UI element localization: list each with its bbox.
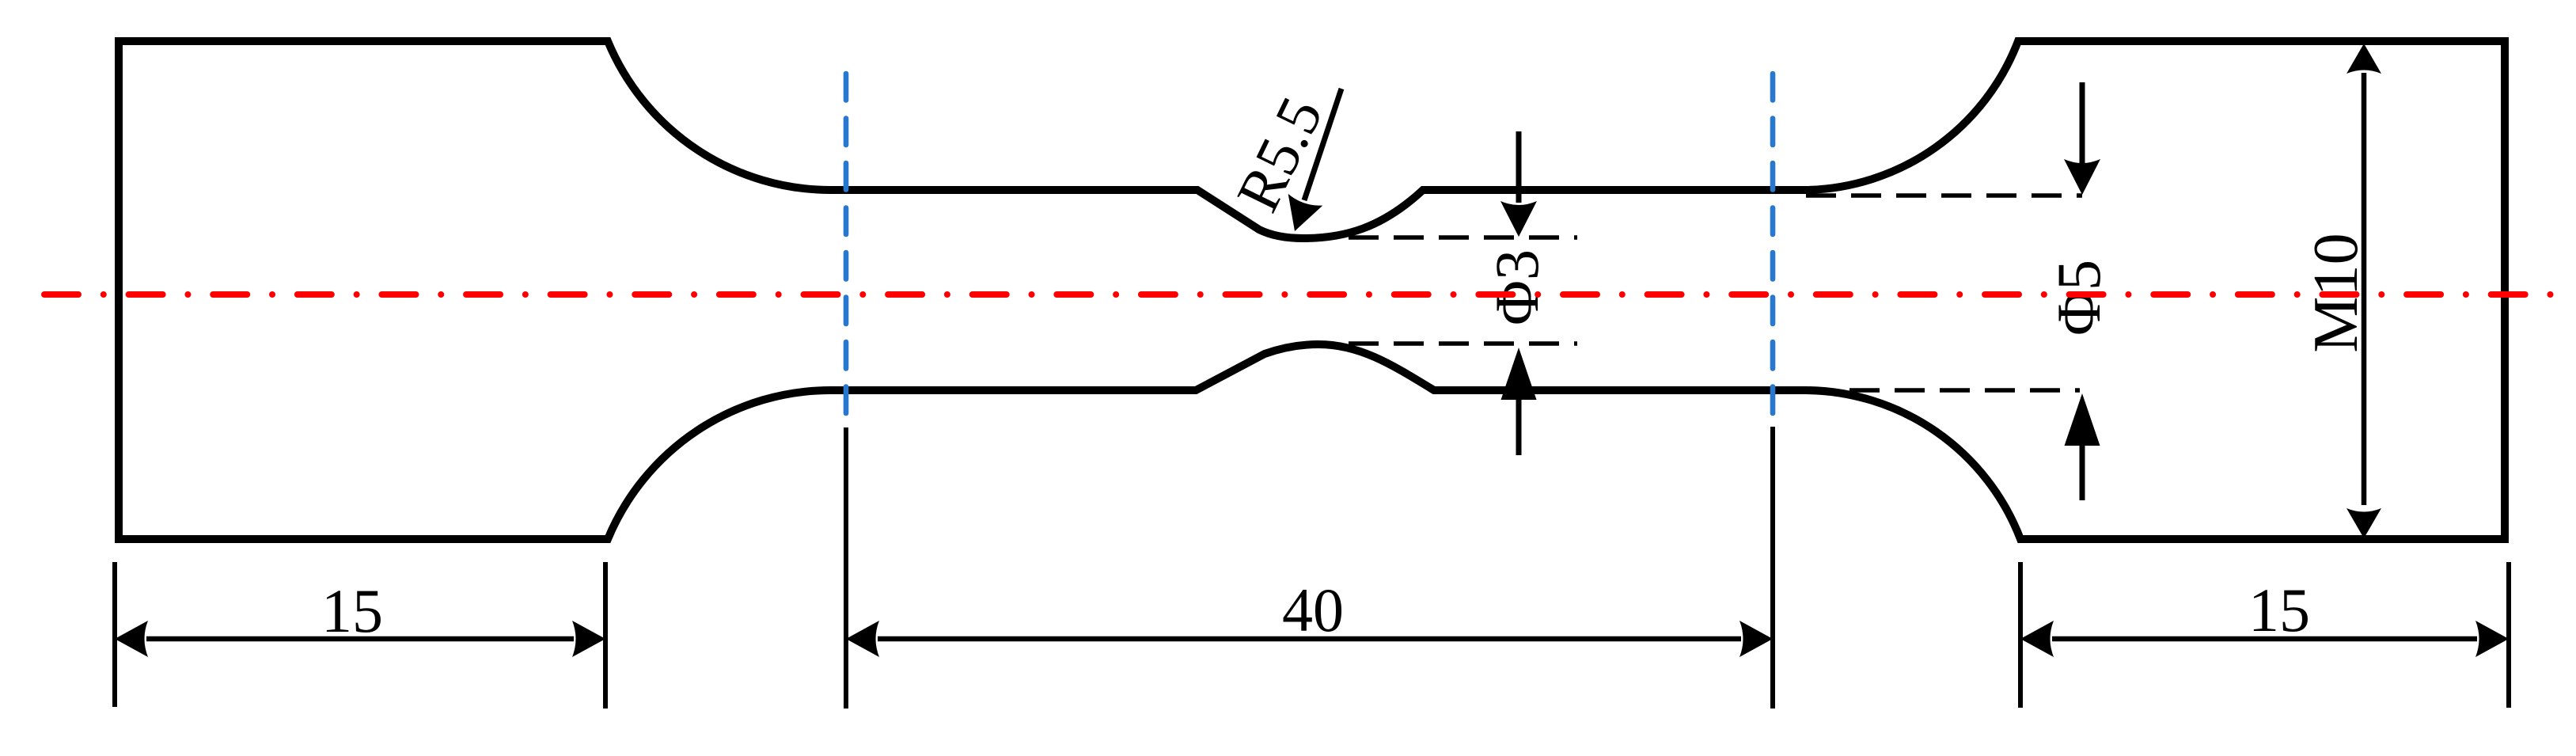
extension line 15-right b [2506,562,2511,708]
dashed phi5 line top [1806,193,2082,198]
blue section line right [1770,74,1776,417]
extension line 15-left a [112,562,117,707]
phi5 arrow top [2080,82,2085,163]
dashed phi3 line bottom [1349,341,1577,346]
arrow 15-right left [2020,621,2054,657]
dimension line 40 [878,636,1741,642]
blue section line left [844,74,849,417]
extension line 15-left b [603,562,608,709]
arrow M10 top [2346,44,2381,74]
svg-text:15: 15 [321,576,383,645]
specimen outline [119,41,2505,539]
dashed phi3 line top [1349,235,1577,240]
dimension line 15 left [146,636,574,642]
R5.5 leader line [1304,89,1341,200]
arrow 15-left right [572,621,605,657]
R5.5 leader arrowhead [1277,194,1322,237]
svg-text:Φ3: Φ3 [1482,249,1551,325]
extension line 40 b [1770,427,1775,709]
svg-text:40: 40 [1282,576,1344,644]
dimension line M10 [2362,73,2367,505]
arrow M10 bottom [2346,508,2381,538]
red centerline [44,291,2563,298]
arrow 40 right [1739,621,1773,657]
dashed phi5 line bottom [1849,388,2080,393]
arrow 15-right right [2475,621,2509,657]
extension line 15-right a [2018,562,2023,708]
phi5 arrow bottom [2080,445,2085,500]
arrow 15-left left [115,621,148,657]
phi3 arrow bottom [1516,400,1522,455]
phi3 arrow top [1516,131,1522,203]
extension line 40 a [844,427,848,709]
svg-text:15: 15 [2248,576,2310,644]
arrow 40 left [846,621,879,657]
dimension line 15 right [2052,636,2477,642]
